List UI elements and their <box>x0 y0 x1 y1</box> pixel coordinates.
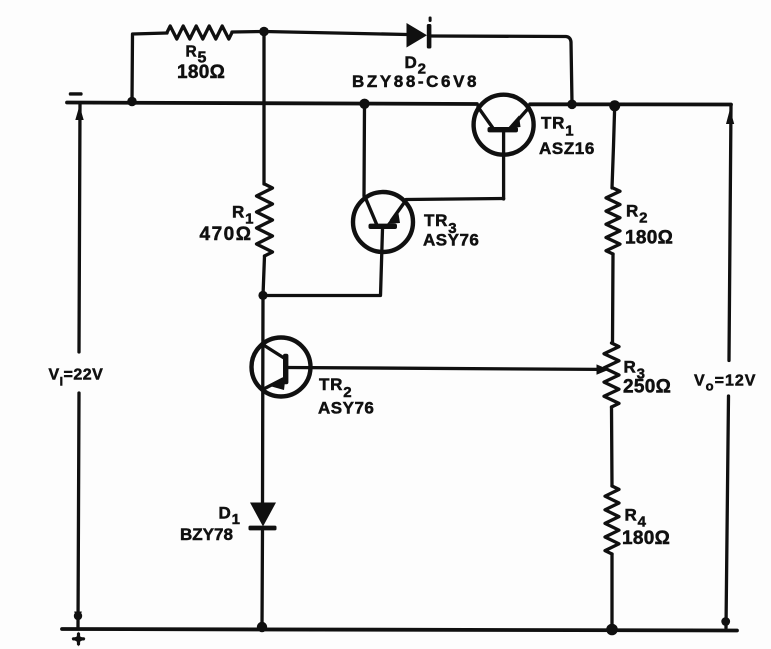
svg-text:250Ω: 250Ω <box>623 377 671 398</box>
svg-text:BZY88-C6V8: BZY88-C6V8 <box>352 72 479 91</box>
svg-text:470Ω: 470Ω <box>200 224 253 245</box>
svg-text:ASZ16: ASZ16 <box>539 139 595 158</box>
svg-text:180Ω: 180Ω <box>622 528 670 549</box>
svg-text:BZY78: BZY78 <box>180 525 233 544</box>
svg-text:180Ω: 180Ω <box>625 228 673 249</box>
svg-text:ASY76: ASY76 <box>318 399 374 418</box>
svg-text:ASY76: ASY76 <box>423 231 479 250</box>
svg-text:180Ω: 180Ω <box>177 62 225 83</box>
